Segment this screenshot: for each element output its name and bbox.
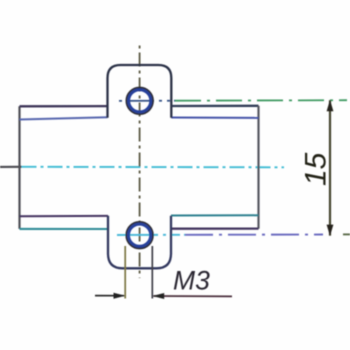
body outline: left edge [18,106,20,229]
body outline: bottom edge right segment [171,227,259,229]
M3 extension line right [151,246,153,299]
bottom hole: thread outer circle [126,222,153,249]
vertical center line [139,46,141,279]
M3 left arrow [95,293,125,299]
body outline: top edge right segment [171,105,258,107]
svg-text:15: 15 [300,152,333,186]
dimension line 15 (right side) [327,100,334,236]
top hole: thread outer circle [126,88,153,115]
bottom hole center line (extends to dimension) [117,233,350,236]
bottom hole: drilled inner circle [129,224,151,246]
top hole: drilled inner circle [129,90,151,112]
inner top line left segment [20,117,108,119]
M3 extension line left [124,246,126,299]
inner bottom line right segment [171,214,259,216]
bottom tab (ear) outline [108,216,171,269]
top tab (ear) outline [108,65,172,118]
body outline: right edge [257,106,259,229]
M3 leader line with arrow (underline of text) [152,293,232,299]
inner top line right segment [171,117,258,119]
body outline: bottom edge left segment [20,228,109,230]
top hole center line (extends to dimension) [119,99,347,102]
horizontal center line (main axis) [0,166,284,169]
body outline: top edge left segment [20,105,108,108]
svg-text:M3: M3 [173,266,210,296]
inner bottom line left segment [20,215,109,217]
